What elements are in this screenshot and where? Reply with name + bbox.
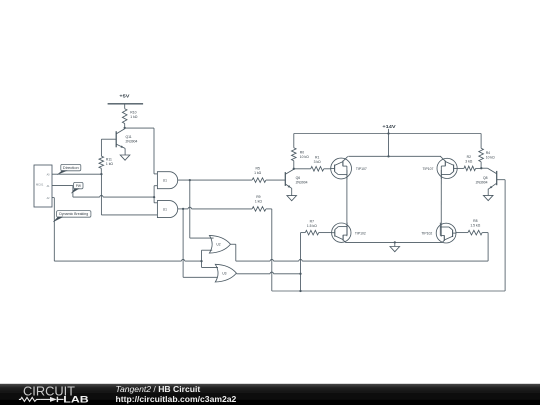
- svg-text:1 kΩ: 1 kΩ: [106, 162, 114, 166]
- svg-text:1.5 kΩ: 1.5 kΩ: [470, 223, 480, 227]
- svg-text:R11: R11: [106, 158, 112, 162]
- svg-text:3 kΩ: 3 kΩ: [314, 160, 322, 164]
- svg-text:+14V: +14V: [382, 124, 396, 129]
- svg-text:TIP107: TIP107: [422, 167, 433, 171]
- svg-text:1 kΩ: 1 kΩ: [254, 171, 262, 175]
- svg-text:Q11: Q11: [126, 135, 132, 139]
- svg-text:R4: R4: [486, 151, 490, 155]
- svg-text:U1: U1: [163, 207, 167, 211]
- svg-text:2N3904: 2N3904: [126, 139, 138, 143]
- svg-text:Q6: Q6: [296, 176, 301, 180]
- svg-text:+5V: +5V: [119, 93, 130, 98]
- svg-text:1.5 kΩ: 1.5 kΩ: [307, 224, 317, 228]
- svg-text:Tangent2 / HB Circuit: Tangent2 / HB Circuit: [116, 384, 201, 394]
- svg-text:3 kΩ: 3 kΩ: [465, 160, 473, 164]
- svg-text:TIP102: TIP102: [421, 232, 432, 236]
- svg-text:R5: R5: [256, 167, 260, 171]
- svg-text:PW: PW: [76, 184, 82, 188]
- svg-text:Direction: Direction: [63, 166, 79, 170]
- svg-text:R8: R8: [473, 219, 477, 223]
- svg-text:R0: R0: [300, 150, 304, 154]
- svg-text:10 kΩ: 10 kΩ: [300, 155, 309, 159]
- svg-text:1 kΩ: 1 kΩ: [255, 200, 263, 204]
- svg-text:R9: R9: [256, 195, 260, 199]
- svg-text:Q8: Q8: [483, 176, 488, 180]
- svg-text:1 kΩ: 1 kΩ: [130, 115, 138, 119]
- svg-text:R2: R2: [467, 155, 471, 159]
- svg-text:R7: R7: [310, 219, 314, 223]
- svg-text:U1: U1: [163, 179, 167, 183]
- svg-text:TIP107: TIP107: [356, 167, 367, 171]
- svg-text:U2: U2: [216, 243, 220, 247]
- svg-text:R1: R1: [315, 155, 319, 159]
- svg-text:TIP102: TIP102: [355, 231, 366, 235]
- svg-text:2N3904: 2N3904: [296, 181, 308, 185]
- svg-text:U3: U3: [222, 271, 226, 275]
- svg-text:http://circuitlab.com/c3am2a2: http://circuitlab.com/c3am2a2: [116, 394, 237, 404]
- svg-text:R10: R10: [130, 111, 136, 115]
- svg-text:MCU1: MCU1: [36, 182, 44, 186]
- svg-text:2N3904: 2N3904: [476, 181, 488, 185]
- svg-text:Dynamic Breaking: Dynamic Breaking: [59, 212, 88, 216]
- svg-text:LAB: LAB: [63, 395, 88, 405]
- svg-text:10 kΩ: 10 kΩ: [486, 155, 495, 159]
